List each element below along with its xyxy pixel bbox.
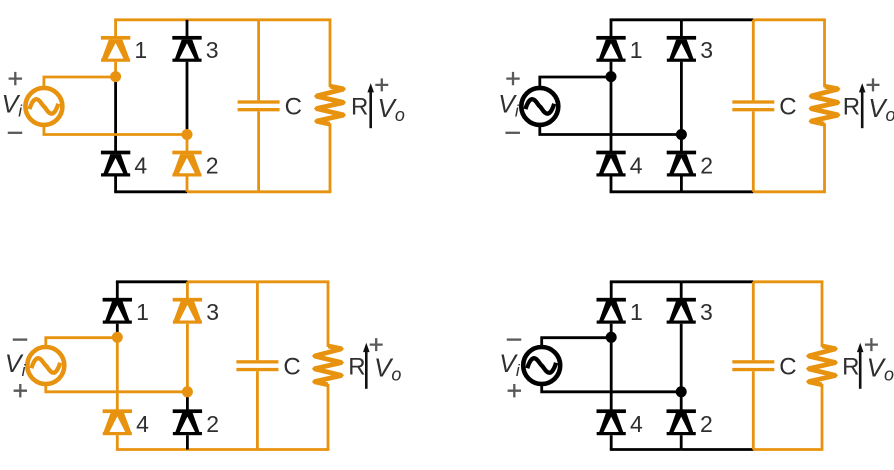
svg-text:3: 3 <box>700 37 713 63</box>
source polarity - (top) (3) <box>13 338 28 340</box>
capacitor C (1) <box>238 100 280 111</box>
output polarity + (4) <box>865 338 878 351</box>
wire: diode 2 to bottom rail stub (1) <box>186 177 189 192</box>
wire: resistor bottom lead (3) <box>327 384 330 450</box>
wire: capacitor top stub (2) <box>752 20 755 101</box>
output voltage arrow (2) <box>859 83 866 128</box>
wire: diode 4 to bottom rail stub (4) <box>610 435 613 449</box>
svg-text:C: C <box>283 353 300 380</box>
wire: bottom rail D2-to-C segment (3) <box>187 448 257 451</box>
output polarity + (3) <box>370 338 383 351</box>
wire: node A to diode 4 segment (1) <box>114 77 117 153</box>
wire: node A to diode 4 segment (4) <box>610 337 613 411</box>
wire: node B to diode 2 segment (2) <box>680 135 683 153</box>
wire: diode 1 to node A segment (1) <box>114 62 117 77</box>
wire: resistor bottom lead (4) <box>821 384 824 450</box>
node A junction dot (1) <box>110 71 121 82</box>
svg-text:2: 2 <box>206 411 219 437</box>
diode D3 (4) <box>667 298 696 324</box>
wire: diode 3 to node B segment (2) <box>680 62 683 135</box>
source polarity + (bottom) (4) <box>508 384 521 397</box>
wire: diode 3 to node B segment (3) <box>186 324 189 392</box>
wire: top rail to diode 1 stub (3) <box>116 282 119 300</box>
wire: top rail to diode 1 stub (1) <box>114 20 117 38</box>
diode D2 (2) <box>667 151 696 177</box>
wire: bottom rail C-to-R segment (4) <box>753 448 823 451</box>
wire: source top lead to node A (4) <box>542 338 612 348</box>
svg-text:2: 2 <box>700 153 713 179</box>
node A junction dot (2) <box>606 71 617 82</box>
wire: top rail C-to-R segment (4) <box>753 280 823 283</box>
svg-text:1: 1 <box>630 37 643 63</box>
AC source Vi (4) <box>523 347 560 384</box>
diode D1 (4) <box>597 298 626 324</box>
wire: bottom rail C-to-R segment (3) <box>257 448 329 451</box>
wire: bottom rail D4-to-D2 segment (4) <box>610 448 681 451</box>
wire: diode 4 to bottom rail stub (1) <box>114 177 117 192</box>
svg-text:4: 4 <box>630 153 643 179</box>
svg-text:1: 1 <box>134 37 147 63</box>
wire: diode 1 to node A segment (4) <box>610 324 613 338</box>
wire: top rail to diode 3 stub (1) <box>186 20 189 38</box>
svg-text:C: C <box>285 94 302 121</box>
wire: capacitor bottom stub (4) <box>752 371 755 449</box>
wire: diode 2 to bottom rail stub (3) <box>186 435 189 449</box>
capacitor C (4) <box>732 360 774 371</box>
wire: top rail to diode 1 stub (2) <box>610 20 613 38</box>
wire: bottom rail C-to-R segment (1) <box>259 190 332 193</box>
diode D4 (1) <box>101 151 130 177</box>
wire: resistor bottom lead (2) <box>823 123 826 192</box>
wire: source bottom lead to node B (1) <box>44 124 187 134</box>
wire: bottom rail D2-to-C segment (2) <box>681 190 753 193</box>
svg-text:R: R <box>842 353 859 380</box>
wire: diode 1 to node A segment (2) <box>610 62 613 77</box>
diode D3 (1) <box>172 36 201 62</box>
wire: top rail to diode 1 stub (4) <box>610 282 613 300</box>
svg-text:3: 3 <box>700 299 713 325</box>
svg-text:Vo: Vo <box>378 93 405 125</box>
wire: bottom rail D2-to-C segment (1) <box>187 190 259 193</box>
wire: top rail D3-to-C segment (4) <box>681 280 753 283</box>
wire: capacitor top stub (3) <box>256 282 259 360</box>
wire: bottom rail C-to-R segment (2) <box>753 190 826 193</box>
wire: source bottom lead to node B (2) <box>540 124 682 134</box>
node B junction dot (1) <box>182 129 193 140</box>
wire: top rail D1-to-D3 segment (4) <box>610 280 681 283</box>
wire: bottom rail D2-to-C segment (4) <box>681 448 753 451</box>
diode D2 (1) <box>172 151 201 177</box>
diode D1 (1) <box>101 36 130 62</box>
wire: top rail C-to-R segment (2) <box>753 18 826 21</box>
wire: top rail D1-to-D3 segment (2) <box>610 18 682 21</box>
source polarity + (top) (2) <box>506 72 519 85</box>
diode D3 (2) <box>667 36 696 62</box>
wire: top rail C-to-R segment (3) <box>257 280 329 283</box>
wire: top rail to diode 3 stub (4) <box>680 282 683 300</box>
resistor R (1) <box>314 84 346 127</box>
wire: capacitor top stub (4) <box>752 282 755 360</box>
diode D1 (3) <box>103 298 132 324</box>
resistor R (4) <box>806 343 838 387</box>
wire: resistor top lead (3) <box>327 282 330 347</box>
svg-text:3: 3 <box>206 299 219 325</box>
wire: source top lead to node A (3) <box>46 338 118 348</box>
diode D1 (2) <box>596 36 625 62</box>
wire: resistor bottom lead (1) <box>329 123 332 192</box>
svg-text:Vi: Vi <box>5 350 27 380</box>
wire: top rail D3-to-C segment (2) <box>681 18 753 21</box>
wire: diode 1 to node A segment (3) <box>116 324 119 338</box>
wire: source top lead to node A (1) <box>44 77 116 88</box>
AC source Vi (1) <box>25 88 62 125</box>
wire: top rail to diode 3 stub (2) <box>680 20 683 38</box>
wire: node B to diode 2 segment (1) <box>186 135 189 153</box>
AC source Vi (2) <box>521 88 558 125</box>
wire: diode 3 to node B segment (4) <box>680 324 683 392</box>
capacitor C (3) <box>236 360 278 371</box>
wire: diode 4 to bottom rail stub (3) <box>116 435 119 449</box>
wire: diode 2 to bottom rail stub (4) <box>680 435 683 449</box>
svg-text:4: 4 <box>134 153 147 179</box>
svg-text:4: 4 <box>630 411 643 437</box>
svg-text:Vo: Vo <box>868 93 894 125</box>
wire: resistor top lead (1) <box>329 20 332 87</box>
wire: top rail D1-to-D3 segment (1) <box>114 18 187 21</box>
output voltage arrow (1) <box>367 83 374 128</box>
wire: top rail C-to-R segment (1) <box>259 18 332 21</box>
svg-text:C: C <box>779 353 796 380</box>
source polarity + (top) (1) <box>9 72 22 85</box>
wire: capacitor bottom stub (1) <box>257 111 260 191</box>
diode D3 (3) <box>173 298 202 324</box>
diode D4 (3) <box>103 409 132 435</box>
node B junction dot (2) <box>676 129 687 140</box>
diode D4 (2) <box>596 151 625 177</box>
svg-text:1: 1 <box>136 299 149 325</box>
output polarity + (1) <box>375 78 388 91</box>
diode D2 (4) <box>667 409 696 435</box>
node A junction dot (4) <box>606 332 617 343</box>
wire: node A to diode 4 segment (3) <box>116 337 119 411</box>
wire: resistor top lead (2) <box>823 20 826 87</box>
diode D2 (3) <box>173 409 202 435</box>
output polarity + (2) <box>867 78 880 91</box>
wire: bottom rail D4-to-D2 segment (2) <box>610 190 682 193</box>
node B junction dot (4) <box>676 386 687 397</box>
svg-text:Vo: Vo <box>867 353 894 385</box>
svg-text:2: 2 <box>206 153 219 179</box>
svg-text:R: R <box>351 94 368 121</box>
source polarity - (top) (4) <box>507 338 522 340</box>
diode D4 (4) <box>597 409 626 435</box>
svg-text:1: 1 <box>630 299 643 325</box>
wire: node B to diode 2 segment (4) <box>680 392 683 411</box>
wire: capacitor bottom stub (2) <box>752 111 755 191</box>
wire: capacitor top stub (1) <box>257 20 260 101</box>
wire: bottom rail D4-to-D2 segment (1) <box>114 190 187 193</box>
wire: capacitor bottom stub (3) <box>256 371 259 449</box>
output voltage arrow (4) <box>857 343 864 389</box>
source polarity - (bottom) (1) <box>8 132 23 134</box>
svg-text:C: C <box>779 94 796 121</box>
node A junction dot (3) <box>112 332 123 343</box>
wire: top rail D1-to-D3 segment (3) <box>116 280 187 283</box>
source polarity - (bottom) (2) <box>505 132 520 134</box>
resistor R (3) <box>312 343 344 387</box>
svg-text:Vi: Vi <box>2 90 24 120</box>
svg-text:Vi: Vi <box>499 350 521 380</box>
wire: node B to diode 2 segment (3) <box>186 392 189 411</box>
svg-text:R: R <box>348 353 365 380</box>
wire: node A to diode 4 segment (2) <box>610 77 613 153</box>
svg-text:4: 4 <box>136 411 149 437</box>
wire: top rail D3-to-C segment (3) <box>187 280 257 283</box>
output voltage arrow (3) <box>363 343 370 389</box>
svg-text:3: 3 <box>206 37 219 63</box>
wire: source bottom lead to node B (3) <box>46 384 188 392</box>
wire: resistor top lead (4) <box>821 282 824 347</box>
wire: bottom rail D4-to-D2 segment (3) <box>116 448 187 451</box>
svg-text:Vo: Vo <box>374 353 401 385</box>
wire: top rail D3-to-C segment (1) <box>187 18 259 21</box>
wire: diode 3 to node B segment (1) <box>186 62 189 135</box>
wire: source bottom lead to node B (4) <box>542 384 682 392</box>
resistor R (2) <box>809 84 841 127</box>
wire: diode 2 to bottom rail stub (2) <box>680 177 683 192</box>
wire: diode 4 to bottom rail stub (2) <box>610 177 613 192</box>
wire: source top lead to node A (2) <box>540 77 611 88</box>
svg-text:R: R <box>843 94 860 121</box>
source polarity + (bottom) (3) <box>14 384 27 397</box>
wire: top rail to diode 3 stub (3) <box>186 282 189 300</box>
svg-text:2: 2 <box>700 411 713 437</box>
capacitor C (2) <box>732 100 774 111</box>
AC source Vi (3) <box>27 347 64 384</box>
node B junction dot (3) <box>182 386 193 397</box>
svg-text:Vi: Vi <box>498 90 520 120</box>
